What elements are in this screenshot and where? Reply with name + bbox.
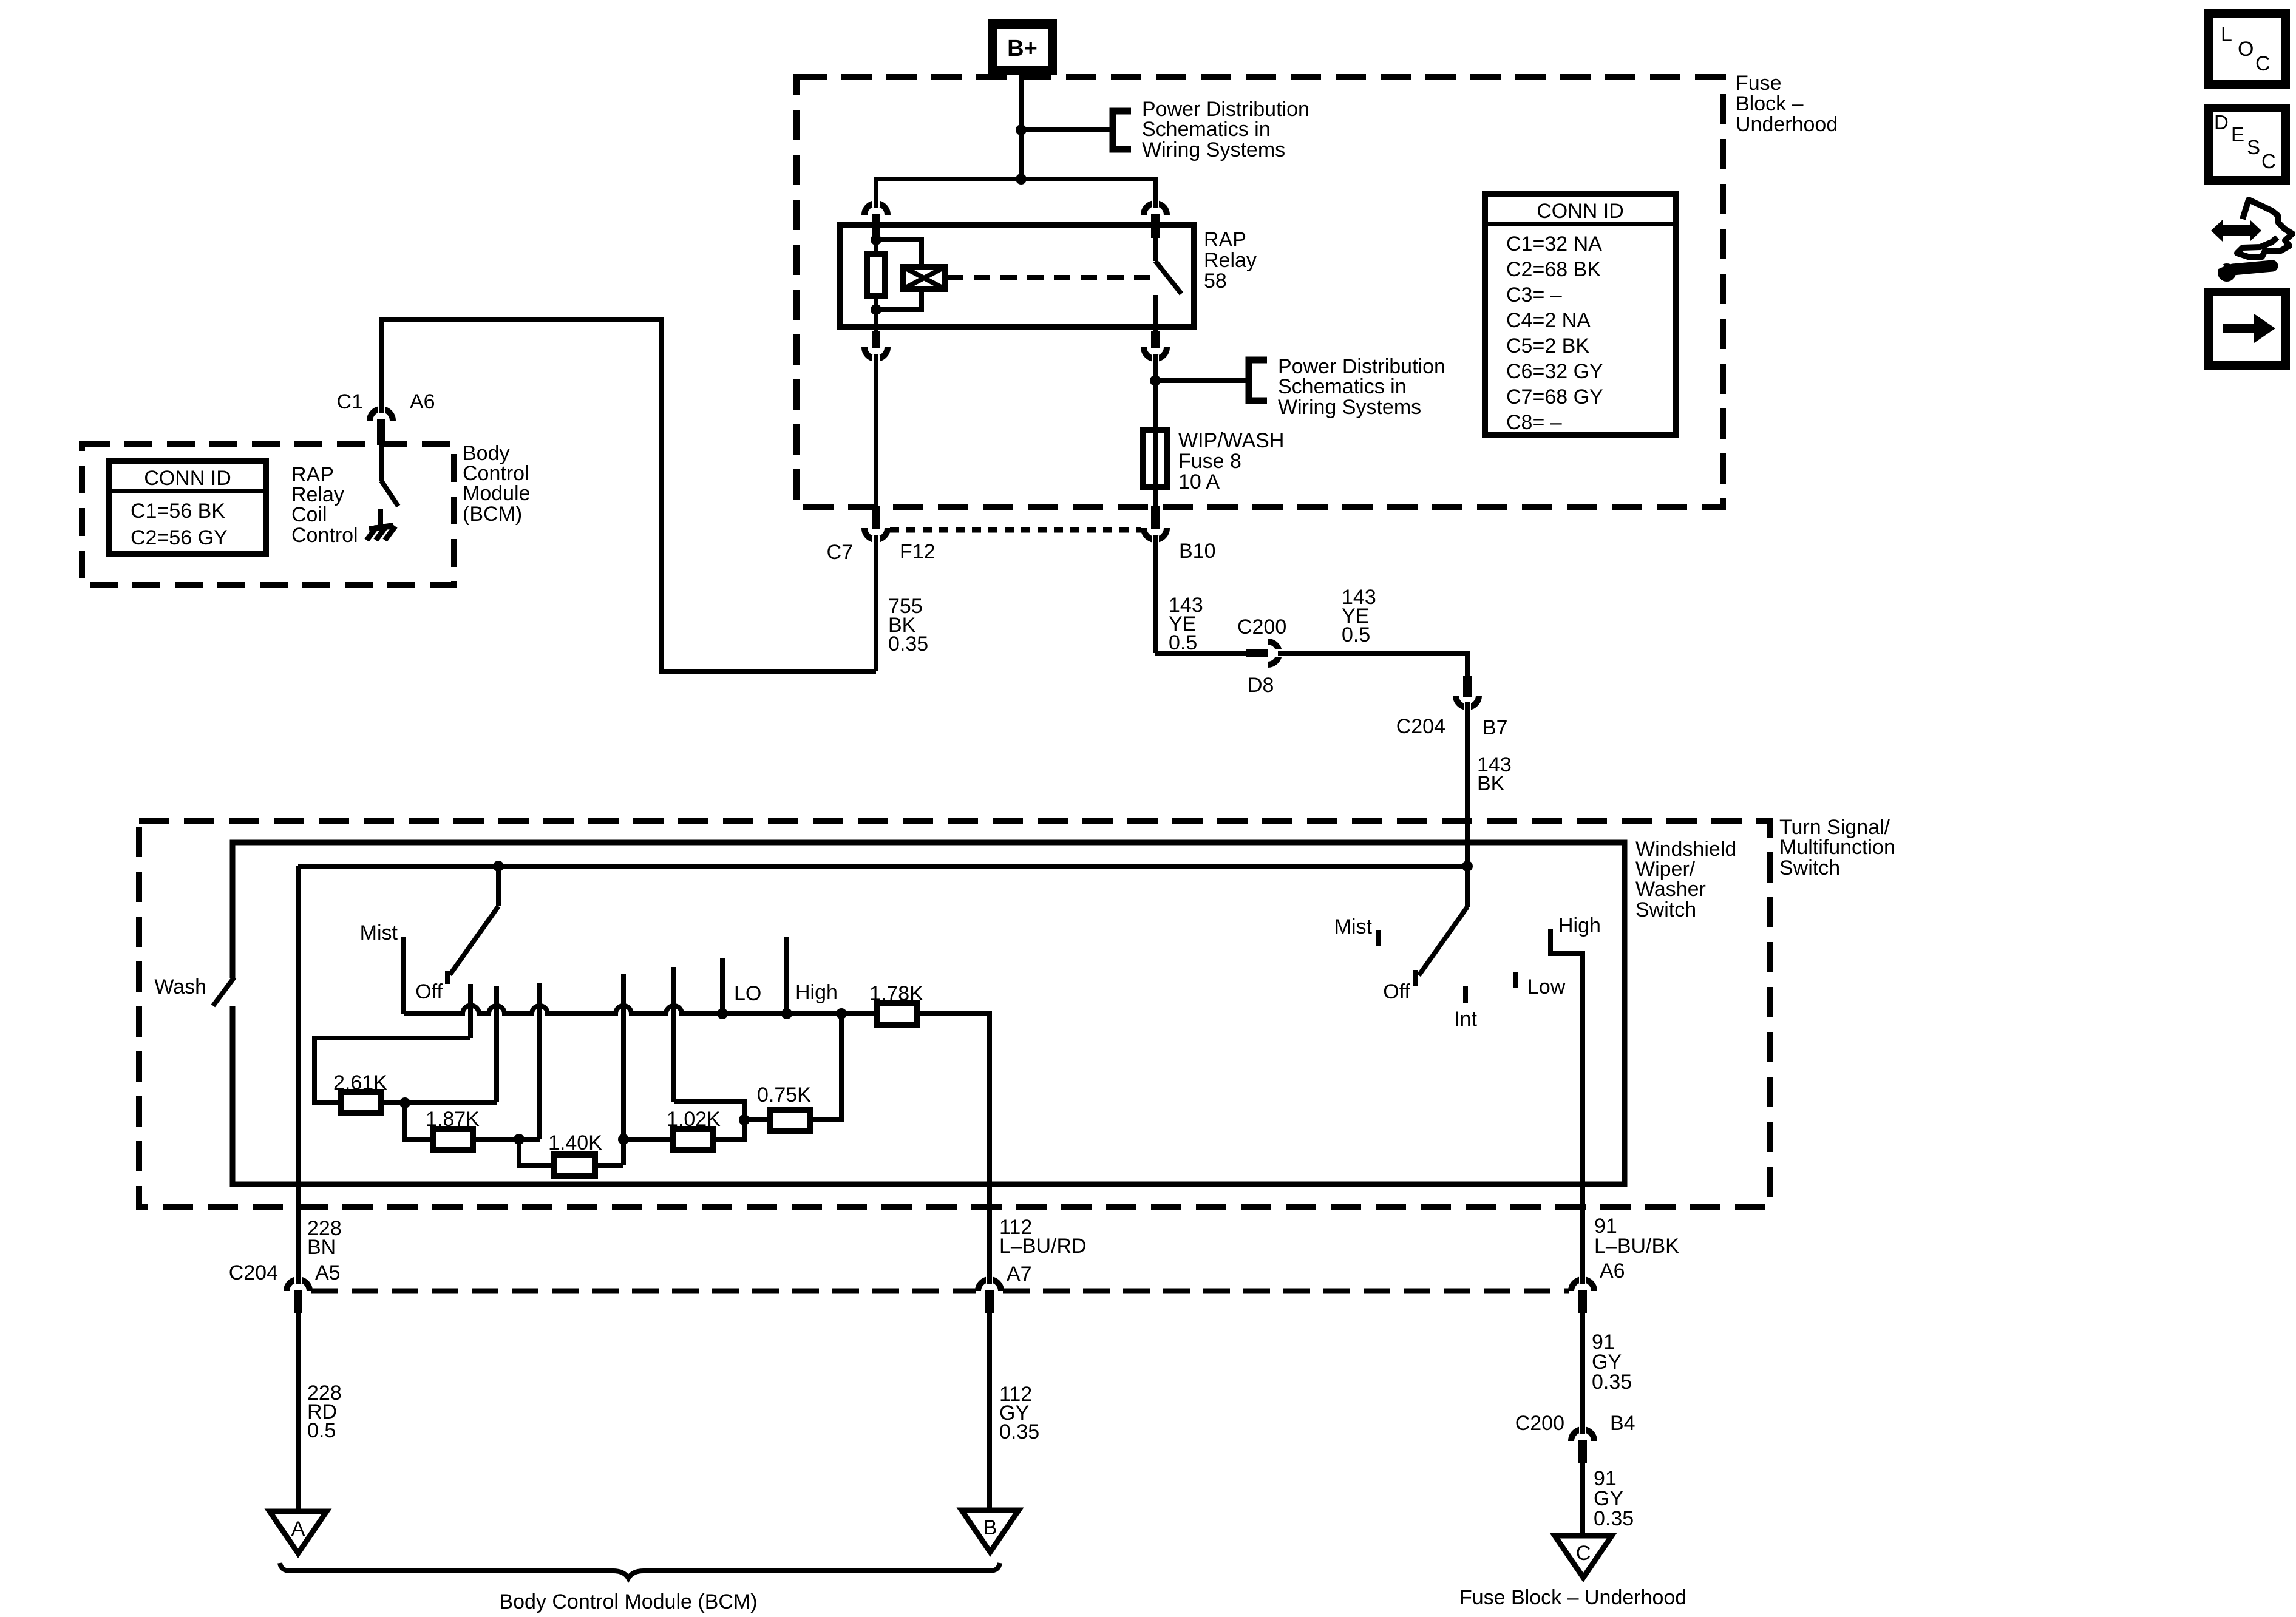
- svg-text:C200: C200: [1237, 615, 1286, 639]
- connector socket relay bottom-left: [872, 331, 880, 348]
- node junction top rail: [1016, 174, 1027, 185]
- svg-text:Module: Module: [463, 482, 531, 505]
- contact Off right: [1413, 970, 1418, 986]
- icon wrench: [2212, 260, 2272, 282]
- BCM dashed box: [82, 444, 454, 585]
- svg-text:RAP: RAP: [1204, 228, 1246, 251]
- connector C204 A6: [1571, 1280, 1594, 1291]
- svg-text:0.35: 0.35: [999, 1420, 1039, 1443]
- wire drop to 1.40K: [519, 1139, 554, 1165]
- contact LO: [720, 958, 725, 1014]
- offpage triangle A: [270, 1511, 327, 1553]
- svg-text:Fuse: Fuse: [1736, 72, 1782, 95]
- ground chassis symbol: [369, 526, 393, 529]
- wire 228 BN drop: [296, 866, 301, 1282]
- svg-text:C8= –: C8= –: [1506, 411, 1562, 434]
- wire relay coil leg: [874, 237, 878, 256]
- svg-text:D: D: [2214, 111, 2229, 134]
- switch wiper mode blade left: [496, 866, 501, 906]
- contact Int: [1463, 986, 1468, 1003]
- mechanical link dashed: [947, 275, 1152, 280]
- offpage triangle C: [1555, 1536, 1612, 1578]
- contact Low: [1513, 972, 1518, 988]
- offpage triangle B: [962, 1510, 1019, 1552]
- svg-text:(BCM): (BCM): [463, 503, 522, 526]
- svg-text:Body Control Module (BCM): Body Control Module (BCM): [499, 1590, 757, 1613]
- svg-text:C: C: [1576, 1542, 1591, 1565]
- svg-text:0.5: 0.5: [1342, 623, 1370, 646]
- conn id table fuse block: [1485, 194, 1676, 435]
- svg-text:B: B: [983, 1516, 997, 1539]
- svg-text:A7: A7: [1007, 1263, 1032, 1286]
- svg-text:BN: BN: [307, 1236, 336, 1259]
- svg-text:High: High: [795, 981, 838, 1004]
- battery feed B+: [988, 19, 1057, 75]
- svg-text:C1=56 BK: C1=56 BK: [131, 500, 225, 523]
- svg-text:C204: C204: [1396, 715, 1445, 738]
- contact stub crossover 4: [621, 974, 626, 1165]
- connector C204 B7: [1463, 676, 1472, 697]
- wire 143 YE to C200: [1155, 651, 1249, 656]
- svg-text:Switch: Switch: [1635, 898, 1696, 921]
- contact stub crossover 1: [468, 984, 473, 1038]
- relay switch contact: [1153, 237, 1158, 261]
- off-page bracket 1: [1113, 111, 1131, 149]
- svg-text:C204: C204: [229, 1261, 278, 1284]
- connector socket relay bottom-right: [1151, 331, 1160, 348]
- wire drop to 1.87K: [405, 1103, 433, 1139]
- svg-text:A: A: [291, 1517, 305, 1541]
- svg-text:C7=68 GY: C7=68 GY: [1506, 385, 1603, 408]
- svg-text:Fuse Block – Underhood: Fuse Block – Underhood: [1459, 1586, 1686, 1609]
- svg-text:0.35: 0.35: [1594, 1507, 1634, 1530]
- connector B10 fuse block out: [1151, 506, 1160, 529]
- node 0.75K riser: [836, 1008, 847, 1019]
- resistor relay coil suppression: [867, 254, 885, 296]
- brace BCM span: [280, 1563, 1000, 1578]
- svg-text:A6: A6: [410, 390, 435, 413]
- svg-text:1.40K: 1.40K: [548, 1131, 602, 1154]
- svg-text:C2=68 BK: C2=68 BK: [1506, 258, 1601, 281]
- svg-text:1.02K: 1.02K: [667, 1108, 721, 1131]
- svg-text:Multifunction: Multifunction: [1779, 836, 1895, 859]
- svg-text:0.5: 0.5: [307, 1419, 336, 1442]
- node relay coil bottom: [871, 304, 881, 315]
- svg-text:S: S: [2247, 136, 2260, 158]
- svg-text:Fuse 8: Fuse 8: [1178, 450, 1241, 473]
- connector C7 fuse block out: [872, 506, 880, 529]
- svg-text:Low: Low: [1527, 975, 1566, 998]
- off-page bracket 2: [1249, 360, 1267, 401]
- svg-text:L–BU/BK: L–BU/BK: [1594, 1235, 1679, 1258]
- node feed at delay resistors: [493, 861, 504, 872]
- svg-text:Schematics in: Schematics in: [1278, 375, 1407, 398]
- windshield wiper washer switch solid box: [233, 842, 1625, 1184]
- svg-text:C7: C7: [827, 541, 853, 564]
- connector C200 B4: [1571, 1429, 1594, 1441]
- svg-text:Control: Control: [291, 524, 358, 547]
- svg-text:10 A: 10 A: [1178, 470, 1220, 493]
- wire 1.87K out: [473, 1137, 540, 1142]
- svg-text:C2=56 GY: C2=56 GY: [131, 526, 228, 549]
- svg-text:E: E: [2231, 123, 2244, 146]
- svg-text:B7: B7: [1483, 716, 1508, 739]
- svg-text:Coil: Coil: [291, 503, 327, 526]
- svg-text:C: C: [2255, 52, 2271, 75]
- svg-text:F12: F12: [900, 540, 936, 563]
- svg-text:C200: C200: [1515, 1412, 1564, 1435]
- icon arrow box: [2209, 292, 2286, 365]
- contact High rail: [784, 937, 789, 1014]
- connector pin relay 86 top-right: [1144, 203, 1167, 215]
- wire 0.75K in: [744, 1117, 770, 1122]
- contact High right: [1550, 929, 1583, 1277]
- wire feed rail inside switch: [298, 864, 1467, 869]
- node junction B+ branch: [1016, 124, 1027, 135]
- contact Mist right: [1376, 930, 1381, 946]
- inline connector dashed row C204: [311, 1289, 976, 1294]
- svg-text:C5=2 BK: C5=2 BK: [1506, 334, 1589, 358]
- contact Mist left: [401, 937, 406, 1014]
- svg-text:Wiring Systems: Wiring Systems: [1278, 396, 1421, 419]
- svg-text:Block –: Block –: [1736, 92, 1804, 115]
- svg-text:Int: Int: [1454, 1008, 1477, 1031]
- switch Wash: [213, 977, 234, 1006]
- svg-text:Underhood: Underhood: [1736, 113, 1838, 136]
- inline connector C200 D8: [1246, 649, 1268, 657]
- svg-text:D8: D8: [1248, 674, 1274, 697]
- resistor 1.87K: [433, 1129, 473, 1150]
- resistor 2.61K: [341, 1092, 381, 1113]
- contact stub crossover 5: [671, 967, 676, 1102]
- wire top rail: [876, 179, 1155, 201]
- svg-text:CONN ID: CONN ID: [1537, 200, 1624, 223]
- fuse WIP/WASH Fuse 8: [1153, 425, 1158, 510]
- inline connector dotted line C7-B10: [890, 527, 1141, 533]
- svg-text:Mist: Mist: [1334, 915, 1373, 938]
- wire branch to bracket 2: [1155, 378, 1246, 383]
- svg-text:0.35: 0.35: [888, 632, 928, 656]
- turn signal multifunction switch dashed box: [139, 821, 1770, 1207]
- icon LOC box: [2209, 13, 2286, 84]
- svg-text:0.35: 0.35: [1592, 1371, 1632, 1394]
- wire coil parallel branch: [876, 240, 922, 267]
- svg-text:Wiring Systems: Wiring Systems: [1142, 138, 1285, 161]
- svg-text:C3= –: C3= –: [1506, 283, 1562, 307]
- conn id table BCM: [109, 461, 266, 554]
- svg-text:O: O: [2238, 38, 2254, 61]
- svg-text:1.78K: 1.78K: [869, 982, 923, 1005]
- svg-text:Switch: Switch: [1779, 856, 1840, 880]
- icon DESC box: [2209, 108, 2286, 180]
- resistor 1.78K: [877, 1003, 917, 1025]
- resistor 1.02K: [673, 1129, 713, 1150]
- svg-text:Off: Off: [415, 980, 443, 1003]
- connector C204 A5: [287, 1280, 310, 1291]
- svg-text:L–BU/RD: L–BU/RD: [999, 1235, 1087, 1258]
- svg-text:High: High: [1558, 914, 1601, 937]
- svg-text:Wash: Wash: [154, 975, 206, 998]
- svg-text:A6: A6: [1600, 1259, 1625, 1283]
- svg-text:2.61K: 2.61K: [333, 1071, 387, 1094]
- wire 1.78K to 112 drop: [917, 1014, 990, 1277]
- switch wiper right blade: [1465, 866, 1470, 907]
- wire 1.02K row: [623, 1137, 673, 1142]
- node junction to power distribution ref 2: [1150, 375, 1161, 386]
- wire 143 YE to C204 B7: [1278, 653, 1467, 677]
- svg-text:A5: A5: [315, 1261, 341, 1284]
- fuse block underhood dashed box: [796, 77, 1723, 507]
- wire 1.40K out: [595, 1163, 623, 1168]
- wire resistor ladder rail with crossover humps: [404, 1006, 877, 1014]
- contact stub crossover 3: [537, 983, 542, 1139]
- svg-text:B10: B10: [1179, 540, 1216, 563]
- connector pin relay 30 top-left: [864, 203, 888, 215]
- svg-text:C6=32 GY: C6=32 GY: [1506, 360, 1603, 383]
- svg-text:0.75K: 0.75K: [757, 1083, 811, 1107]
- wire 2.61K out to node: [381, 1100, 497, 1105]
- resistor 0.75K: [770, 1110, 810, 1131]
- svg-text:C1: C1: [337, 390, 363, 413]
- wire B+ down: [1019, 75, 1024, 179]
- relay coil winding symbol: [903, 267, 945, 289]
- svg-text:WIP/WASH: WIP/WASH: [1178, 429, 1284, 452]
- svg-text:1.87K: 1.87K: [426, 1108, 480, 1131]
- svg-text:B4: B4: [1610, 1412, 1635, 1435]
- svg-text:C4=2 NA: C4=2 NA: [1506, 309, 1591, 332]
- wire 1.02K out riser: [674, 1102, 744, 1139]
- contact stub crossover 2: [494, 986, 499, 1102]
- svg-text:L: L: [2221, 23, 2232, 46]
- relay RAP Relay 58 box: [840, 225, 1194, 327]
- switch BCM driver: [379, 445, 384, 481]
- icon part outline: [2237, 200, 2292, 257]
- contact Off tick left: [445, 971, 450, 984]
- node feed at wiper switch: [1462, 861, 1473, 872]
- svg-text:58: 58: [1204, 269, 1227, 293]
- svg-text:Schematics in: Schematics in: [1142, 118, 1271, 141]
- wire 2.61K branch: [314, 1038, 470, 1103]
- svg-text:C: C: [2261, 150, 2276, 172]
- wire BCM RAP relay coil control run: [381, 319, 876, 671]
- wire 0.75K out riser: [810, 1014, 841, 1120]
- svg-text:Relay: Relay: [1204, 249, 1257, 272]
- wire branch to power distribution ref: [1021, 127, 1110, 132]
- resistor 1.40K: [554, 1154, 595, 1176]
- connector C1 A6 BCM: [370, 409, 393, 421]
- connector C204 A7: [978, 1280, 1001, 1291]
- svg-text:CONN ID: CONN ID: [144, 467, 231, 490]
- icon double arrow: [2211, 220, 2261, 242]
- svg-text:Off: Off: [1383, 980, 1410, 1003]
- svg-text:B+: B+: [1007, 36, 1038, 61]
- svg-text:BK: BK: [1477, 772, 1505, 795]
- svg-text:C1=32 NA: C1=32 NA: [1506, 232, 1602, 256]
- svg-text:Washer: Washer: [1635, 878, 1706, 901]
- node relay coil top: [871, 234, 881, 245]
- svg-text:Mist: Mist: [360, 921, 398, 944]
- svg-text:LO: LO: [734, 982, 761, 1005]
